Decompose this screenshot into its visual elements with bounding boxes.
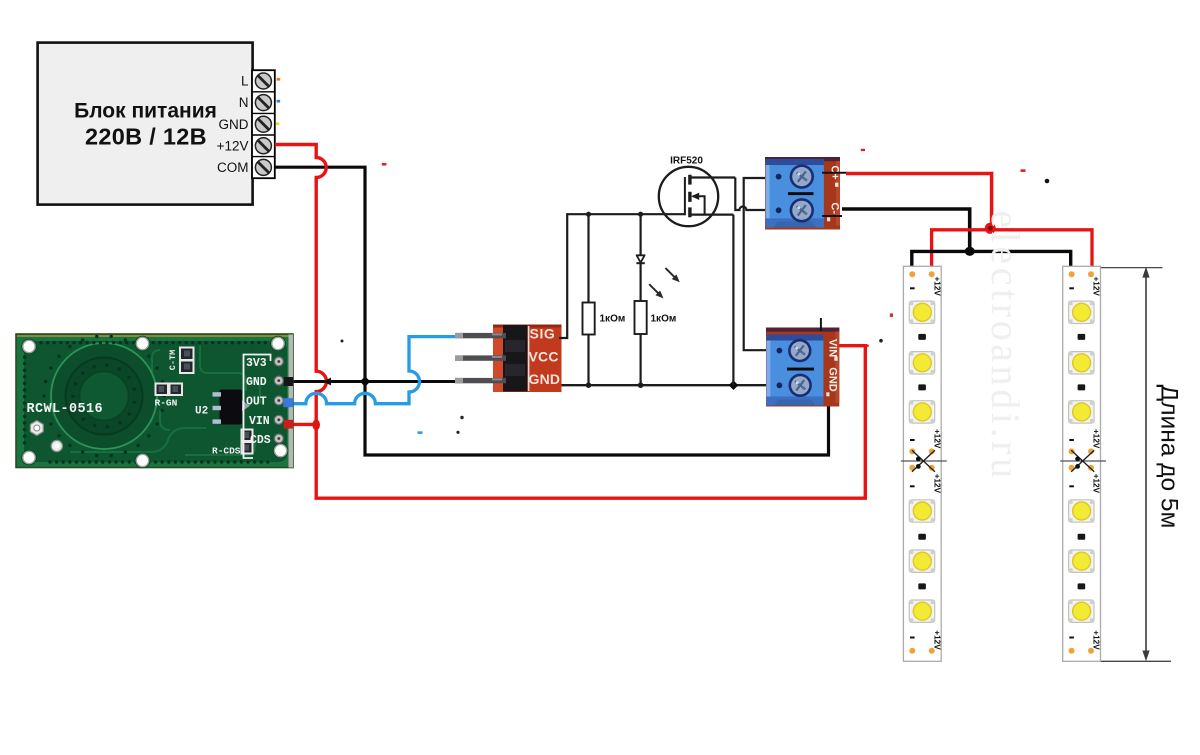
wire: black GND from RCWL GND pin to MOSFET-module GND pin [292, 380, 456, 383]
svg-text:+12V: +12V [932, 474, 941, 494]
U3 pin GND (metal pin) [455, 378, 506, 383]
svg-text:R-CDS: R-CDS [212, 446, 241, 457]
wire: red from C+ to distribution junction [846, 174, 992, 225]
wire: red stub from RCWL VIN pin to +12V rail [292, 423, 316, 426]
svg-text:L: L [241, 74, 249, 89]
svg-text:220В / 12В: 220В / 12В [85, 124, 207, 150]
U2 pin pad CDS [274, 434, 283, 443]
svg-text:+12V: +12V [932, 277, 941, 297]
stray speck: black dot near TB3 [879, 339, 883, 343]
output terminal module TB2 (load, C+ / C-) [765, 157, 841, 230]
svg-text:Блок питания: Блок питания [74, 99, 217, 122]
U2 capacitor C-TM [168, 348, 194, 374]
svg-text:GND: GND [219, 117, 249, 132]
stray speck: red dash near PSU [382, 163, 387, 166]
input terminal module TB3 (power in, VIN / GND) [766, 328, 839, 407]
wire: drain to C- screw (hops over C+ wire) [735, 178, 766, 211]
svg-text:+12V: +12V [1092, 277, 1101, 297]
wire: C+ screw to bottom terminal VIN screw [744, 178, 766, 350]
svg-text:electroandi.ru: electroandi.ru [983, 210, 1028, 481]
artifact: small arrowhead on GND wire [323, 378, 332, 386]
svg-text:VCC: VCC [529, 349, 559, 365]
junction node R1 bottom [586, 382, 592, 388]
svg-text:+12V: +12V [1092, 474, 1101, 494]
svg-text:+12V: +12V [932, 429, 941, 449]
wire: black from C- down to distribution junction [842, 209, 970, 248]
svg-text:OUT: OUT [246, 396, 267, 409]
U2 GND wire-end square (black) [284, 377, 293, 386]
U2 resistor R-GN [155, 384, 183, 409]
wire: black COM/GND net from PSU COM right, down at x=365, down to y=455, right to bottom terminal GND screw [275, 167, 829, 455]
stray speck: black dots small [341, 340, 464, 434]
stray speck: black dot upper right [1045, 179, 1050, 184]
LED D1 emission arrow 2 [649, 284, 663, 298]
resistor R1 1кОм (gate pulldown) [583, 214, 595, 385]
svg-text:C-TM: C-TM [168, 350, 178, 370]
pin N colored tick (blue) [277, 100, 281, 103]
U3 pin VCC (metal pin, unconnected) [455, 355, 506, 360]
transistor Q1 IRF520 (N-MOSFET symbol) [659, 167, 736, 226]
junction: black dot node [965, 247, 975, 256]
dimension extension line bottom [1101, 660, 1171, 662]
svg-text:VIN: VIN [249, 415, 270, 428]
junction: red ring node [986, 224, 994, 232]
U2 pin pad VIN [274, 415, 283, 424]
svg-text:1кОм: 1кОм [651, 314, 677, 325]
TB3 pin stub (top) [820, 318, 822, 331]
pin GND colored tick (yellow) [276, 122, 279, 125]
junction: red dot at +12V/VIN tap [312, 419, 320, 430]
dimension arrow line with arrowheads [1142, 267, 1149, 662]
U2 pin pad 3V3 [274, 357, 283, 366]
svg-text:GND: GND [827, 367, 839, 392]
U2 pin pad GND [274, 376, 283, 385]
svg-text:+12V: +12V [1092, 630, 1101, 650]
pin L colored tick (orange) [277, 78, 281, 81]
wire: red distribution rail to both strip +12V pads [932, 230, 1092, 274]
svg-text:Длина до 5м: Длина до 5м [1156, 385, 1183, 529]
U3 pin SIG (metal pin) [455, 333, 506, 338]
svg-text:N: N [239, 95, 249, 110]
LED strip LS2 (right, 12V white LED strip) [1060, 266, 1106, 661]
stray speck: red dash near C+ [861, 149, 865, 151]
power supply PSU1 "Блок питания 220В / 12В" [38, 43, 253, 205]
svg-text:GND: GND [529, 371, 561, 387]
svg-text:RCWL-0516: RCWL-0516 [27, 402, 104, 417]
LED D1 (indicator) [636, 214, 644, 301]
junction node R2 bottom [638, 382, 644, 388]
LED D1 emission arrow 1 [666, 268, 680, 282]
TB2 pin stub C+ [822, 172, 847, 174]
svg-text:VIN: VIN [827, 339, 839, 357]
svg-text:+12V: +12V [932, 630, 941, 650]
wire: SIG trace from module right edge up to gate rail [559, 214, 685, 338]
TB2 pin stub C- [822, 215, 842, 217]
svg-text:U2: U2 [195, 406, 208, 418]
sensor module U2 RCWL-0516 (green PCB photo) [16, 334, 293, 468]
wire: GND rail from module right edge to bottom terminal GND [562, 384, 767, 386]
dimension extension line top [1101, 267, 1163, 269]
wire: red +12V net from PSU +12V, down (hops over COM and GND wires), to VIN junction, bottom rail right, up to bottom terminal VIN screw [275, 145, 866, 499]
svg-text:CDS: CDS [250, 434, 271, 447]
U2 resistor R-CDS [212, 430, 253, 457]
svg-text:3V3: 3V3 [246, 357, 267, 370]
junction node at LED branch top [638, 212, 643, 217]
svg-text:IRF520: IRF520 [670, 155, 703, 166]
svg-text:+12V: +12V [217, 138, 249, 153]
stray speck: blue dash below wires [418, 431, 423, 434]
stray speck: red dash upper right [1021, 169, 1026, 172]
terminal block TB1 of PSU (pins L, N, GND, +12V, COM) [217, 70, 275, 178]
wire: red overshoot tick at VIN corner [865, 345, 868, 347]
junction node at R1 top [586, 212, 591, 217]
U2 VIN wire-end square (red) [284, 420, 293, 429]
svg-text:C-: C- [829, 202, 841, 214]
wire: source down to GND rail [732, 215, 734, 386]
stray speck: red mark left of strip LS1 [890, 313, 893, 317]
U2 IC chip (black SOT) [213, 390, 251, 425]
junction node MOSFET source at GND rail [729, 380, 739, 390]
resistor R2 1кОм (LED series) [635, 301, 647, 385]
svg-text:GND: GND [246, 376, 267, 389]
junction: black diamond at COM/GND tap [360, 376, 370, 386]
U2 OUT wire-end square (blue) [283, 398, 293, 407]
wire: black distribution rail to both strip minus pads [912, 251, 1071, 274]
wire: blue signal from RCWL OUT (hops red and black wires) up to MOSFET-module SIG pin [292, 337, 456, 404]
svg-text:R-GN: R-GN [155, 398, 178, 409]
svg-text:COM: COM [217, 160, 249, 175]
U2 pin pad OUT [274, 396, 283, 405]
svg-text:+12V: +12V [1092, 429, 1101, 449]
LED strip LS1 (left, 12V white LED strip) [901, 266, 947, 661]
U2 silkscreen bracket for pin labels [244, 355, 271, 459]
svg-text:1кОм: 1кОм [600, 314, 626, 325]
svg-text:SIG: SIG [530, 326, 556, 342]
MOSFET driver module U3 (red board, pins SIG VCC GND) [493, 325, 562, 393]
